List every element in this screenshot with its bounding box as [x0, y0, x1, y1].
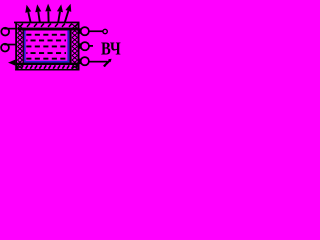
- svg-text:ВЧ: ВЧ: [101, 39, 121, 59]
